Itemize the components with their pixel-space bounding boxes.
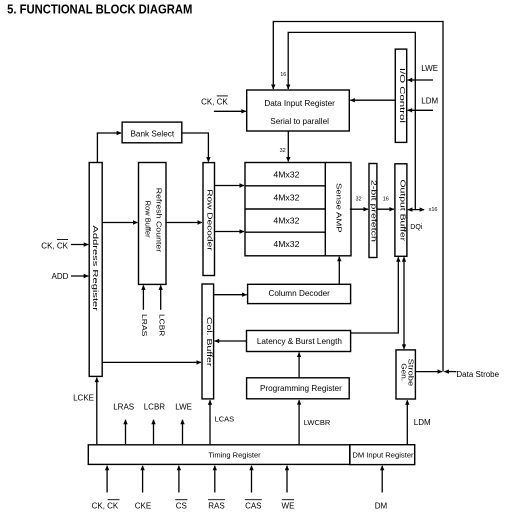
wire: DQ tee to Output Buffer and x16 pads xyxy=(408,209,424,211)
block: Strobe Gen. xyxy=(396,350,416,399)
svg-text:Strobe: Strobe xyxy=(407,359,416,387)
svg-text:LCAS: LCAS xyxy=(215,414,235,423)
svg-text:5. FUNCTIONAL BLOCK DIAGRAM: 5. FUNCTIONAL BLOCK DIAGRAM xyxy=(7,2,192,17)
svg-text:CKE: CKE xyxy=(135,502,151,511)
block: Output Buffer xyxy=(395,164,407,256)
wire: DM input arrow xyxy=(381,466,383,493)
svg-text:Address Register: Address Register xyxy=(91,225,100,311)
svg-text:Data Input Register: Data Input Register xyxy=(264,99,335,108)
svg-text:LCBR: LCBR xyxy=(158,314,166,337)
svg-text:Refresh Counter: Refresh Counter xyxy=(155,188,163,253)
svg-text:RAS: RAS xyxy=(208,502,224,511)
wire: DQS path top into Data Input Register xyxy=(273,22,443,372)
svg-text:LWE: LWE xyxy=(175,403,192,412)
wire: LCBR stub up xyxy=(153,420,155,445)
wire: 2-bit prefetch to Output Buffer xyxy=(377,208,394,210)
svg-text:32: 32 xyxy=(355,197,361,203)
svg-text:Row Decoder: Row Decoder xyxy=(206,189,214,250)
block: Column Decoder xyxy=(248,284,351,303)
wire: LDM stub into I/O Control xyxy=(408,109,433,111)
svg-text:Serial to parallel: Serial to parallel xyxy=(270,117,329,126)
wire: Data Input Register down to array xyxy=(287,131,289,162)
svg-text:Timing Register: Timing Register xyxy=(208,450,261,459)
wire: Refresh Counter to Row Decoder xyxy=(166,222,202,224)
wire: /RAS input arrow xyxy=(214,466,216,493)
svg-text:WE: WE xyxy=(282,502,295,511)
wire: Latency to Output Buffer xyxy=(351,257,399,333)
block: memory array 4Mx32 banks with Sense AMP xyxy=(245,163,351,256)
block: Col. Buffer xyxy=(202,284,214,399)
svg-text:LCKE: LCKE xyxy=(73,394,94,403)
wire: Col. Buffer to Column Decoder xyxy=(214,294,247,296)
svg-text:CK, CK: CK, CK xyxy=(41,241,68,250)
svg-text:DQi: DQi xyxy=(410,224,423,231)
wire: Output Buffer to Strobe Gen xyxy=(403,257,405,349)
svg-text:CAS: CAS xyxy=(245,502,261,511)
block: I/O Control xyxy=(395,49,406,142)
svg-text:32: 32 xyxy=(280,148,286,154)
block: Bank Select xyxy=(122,122,182,143)
label: /CS xyxy=(175,500,187,511)
svg-text:DM Input Register: DM Input Register xyxy=(352,450,414,459)
svg-text:LWCBR: LWCBR xyxy=(304,418,331,427)
wire: Address Register up to Bank Select xyxy=(97,133,121,163)
wire: Programming Register to Latency xyxy=(298,353,300,378)
wire: Latency to Col. Buffer xyxy=(215,340,247,342)
wire: Row Decoder to array row 2 xyxy=(215,231,245,233)
wire: Sense AMP to 2-bit prefetch xyxy=(350,208,368,210)
svg-text:Latency & Burst Length: Latency & Burst Length xyxy=(257,337,343,346)
wire: Strobe Gen to DQS junction xyxy=(415,371,442,373)
svg-text:I/O Control: I/O Control xyxy=(398,68,407,123)
svg-text:LRAS: LRAS xyxy=(113,403,134,412)
block: 2-bit prefetch xyxy=(369,164,378,258)
svg-text:2-bit prefetch: 2-bit prefetch xyxy=(370,180,378,242)
wire: LCAS into Col. Buffer xyxy=(209,400,211,444)
svg-text:CK, CK: CK, CK xyxy=(201,97,228,106)
svg-text:Row Buffer: Row Buffer xyxy=(143,201,152,238)
svg-text:Programming Register: Programming Register xyxy=(260,384,342,393)
wire: Column Decoder up to Sense AMP xyxy=(338,257,340,284)
svg-text:LDM: LDM xyxy=(421,97,438,106)
wire: Row Decoder to array row 1 xyxy=(215,185,245,187)
wire: /CS input arrow xyxy=(178,466,180,493)
block: Row Decoder xyxy=(203,163,215,276)
block: Refresh Counter / Row Buffer xyxy=(139,163,167,285)
svg-text:LCBR: LCBR xyxy=(144,403,166,412)
wire: LRAS stub up xyxy=(125,420,127,445)
wire: CK into Data Input Register xyxy=(214,110,246,112)
block: Data Input Register xyxy=(247,90,350,131)
svg-text:4Mx32: 4Mx32 xyxy=(273,239,299,249)
label: CK, /CK at Address Register xyxy=(41,240,68,251)
block: Latency & Burst Length xyxy=(247,331,351,352)
wire: LCBR into Refresh Counter xyxy=(160,285,162,309)
svg-text:4Mx32: 4Mx32 xyxy=(273,193,299,203)
wire: Address Register to Col. Buffer xyxy=(102,361,201,363)
block: Timing Register xyxy=(88,445,350,465)
label: CK, /CK at Data Input Register xyxy=(201,96,228,106)
svg-text:ADD: ADD xyxy=(52,272,69,281)
wire: LWCBR into Programming Register xyxy=(298,400,300,444)
svg-text:LRAS: LRAS xyxy=(140,314,148,336)
wire: I/O Control to Data Input Register xyxy=(350,99,395,101)
svg-text:LDM: LDM xyxy=(414,418,431,427)
svg-text:DM: DM xyxy=(375,502,388,511)
svg-text:Data Strobe: Data Strobe xyxy=(456,370,499,379)
wire: Bank Select to Row Decoder xyxy=(182,133,209,162)
wire: LCKE into Address Register xyxy=(96,378,98,445)
svg-text:Col. Buffer: Col. Buffer xyxy=(205,317,213,366)
wire: CKE input arrow xyxy=(142,466,144,493)
wire: LRAS into Refresh Counter xyxy=(142,285,144,309)
svg-text:CK, CK: CK, CK xyxy=(92,502,119,511)
label: /CAS xyxy=(245,500,262,511)
wire: CK input arrow xyxy=(106,466,108,493)
svg-text:x16: x16 xyxy=(429,207,438,213)
svg-text:Sense AMP: Sense AMP xyxy=(335,183,344,233)
wire: LDM into Strobe Gen xyxy=(406,400,408,444)
svg-text:4Mx32: 4Mx32 xyxy=(273,169,299,179)
svg-text:CS: CS xyxy=(176,502,187,511)
svg-text:LWE: LWE xyxy=(421,64,438,73)
wire: Address Register to Refresh Counter xyxy=(102,222,137,224)
svg-text:16: 16 xyxy=(280,72,286,78)
svg-text:16: 16 xyxy=(383,197,389,203)
block: DM Input Register xyxy=(350,445,415,465)
svg-text:4Mx32: 4Mx32 xyxy=(273,216,299,226)
svg-text:Column Decoder: Column Decoder xyxy=(268,289,330,298)
wire: /WE input arrow xyxy=(286,466,288,493)
block: Programming Register xyxy=(247,378,350,399)
label: /RAS xyxy=(208,500,225,511)
wire: Data Strobe into junction xyxy=(444,371,456,373)
label: CK, /CK bottom xyxy=(92,500,120,511)
svg-text:Bank Select: Bank Select xyxy=(130,130,174,139)
wire: ADD into Address Register xyxy=(71,275,88,277)
wire: CK into Address Register xyxy=(71,244,88,246)
wire: LWE stub into I/O Control xyxy=(408,79,433,81)
svg-text:Output Buffer: Output Buffer xyxy=(399,179,407,241)
wire: DQ path top into Data Input Register xyxy=(288,32,415,209)
block: Address Register xyxy=(89,163,102,377)
label: /WE xyxy=(282,500,295,511)
wire: LWE stub up xyxy=(182,420,184,445)
wire: /CAS input arrow xyxy=(251,466,253,493)
